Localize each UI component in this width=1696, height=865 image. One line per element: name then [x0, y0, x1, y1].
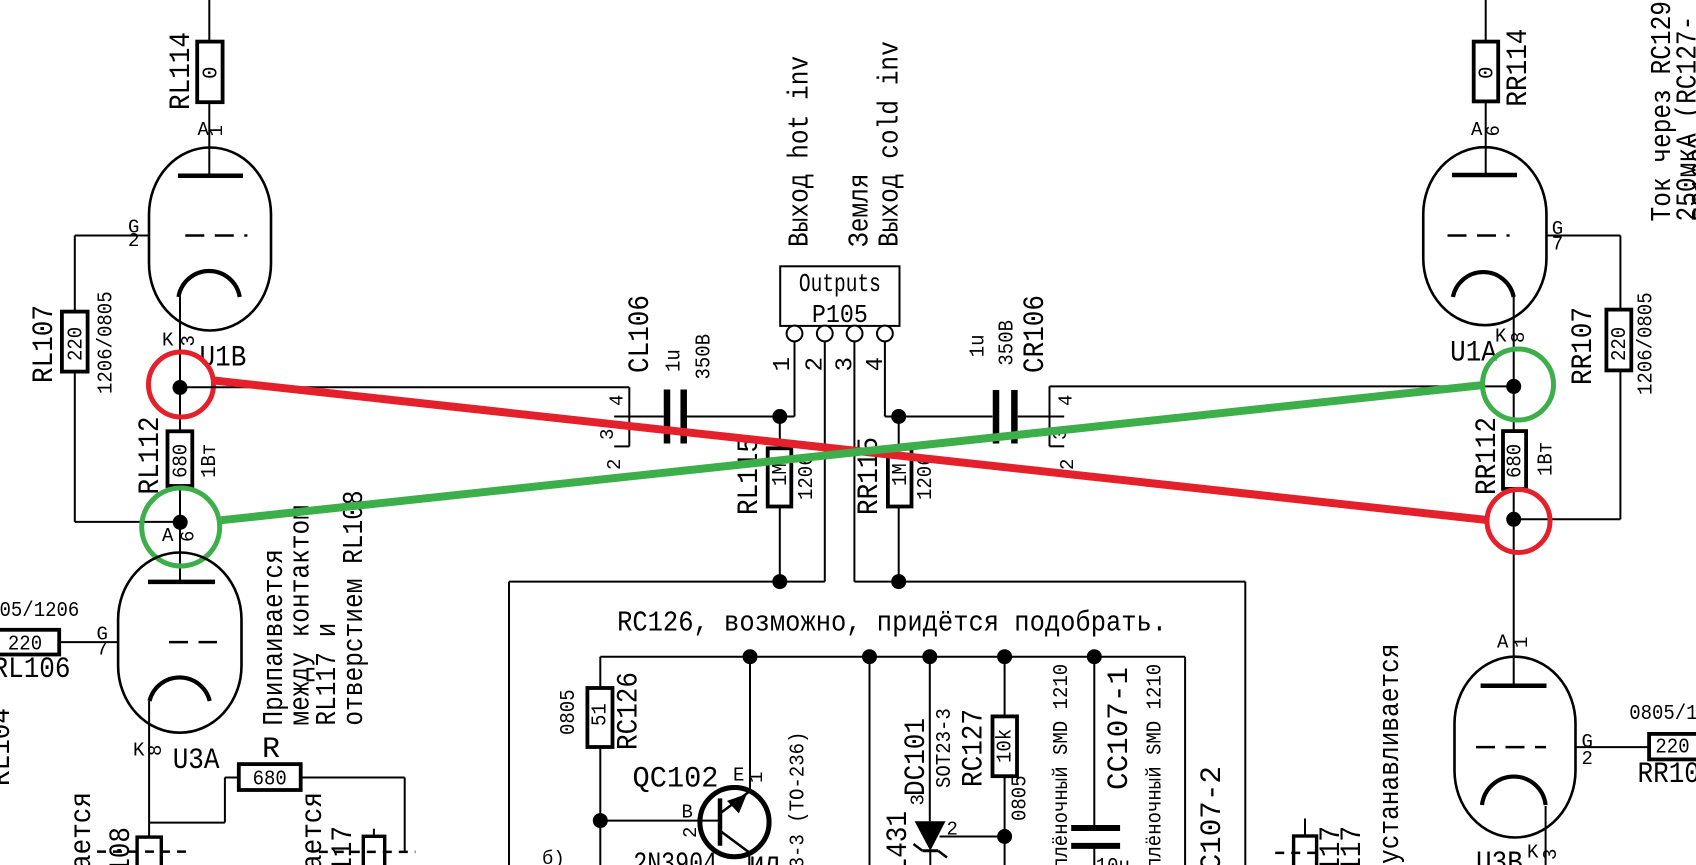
svg-text:RR117: RR117 — [1336, 826, 1370, 865]
wire K U3A to resistor R — [149, 822, 225, 824]
svg-text:RL112: RL112 — [134, 417, 168, 495]
wire CL106 to pin1 P105 — [687, 416, 795, 418]
svg-text:0805: 0805 — [558, 689, 581, 735]
wire K U1A to output network — [1050, 385, 1514, 387]
svg-text:3: 3 — [597, 429, 619, 440]
junction cathode TL431 — [922, 649, 937, 664]
wire RL114 to U1B plate — [208, 102, 210, 176]
svg-text:устанавливается: устанавливается — [1374, 644, 1407, 865]
svg-text:DC101: DC101 — [900, 718, 934, 796]
wire RC126 down — [599, 747, 601, 865]
svg-text:1M: 1M — [890, 463, 913, 486]
svg-text:350В: 350В — [694, 334, 717, 380]
junction CC107-1 — [1087, 649, 1102, 664]
wire K U1B to output network — [180, 386, 629, 388]
svg-text:2: 2 — [680, 827, 702, 838]
wire CR106 to right connector — [1018, 416, 1064, 418]
wire CC107-1 bottom — [1093, 849, 1095, 865]
svg-text:10u: 10u — [1096, 856, 1130, 865]
highlight circle green at A U3A — [142, 488, 220, 566]
wire U1B grid — [75, 235, 149, 237]
dashed wire at RL108 — [97, 850, 190, 853]
wire pin4 P105 — [884, 342, 886, 417]
wire RR112 to U3B anode — [1513, 489, 1515, 686]
svg-text:1: 1 — [206, 125, 228, 136]
dashed wire at RR117 — [1275, 852, 1323, 855]
wire K U1A to RR112 — [1513, 297, 1515, 432]
pin circles of P105 — [787, 326, 803, 342]
svg-text:ил: ил — [749, 848, 780, 865]
junction RC127 TL431 — [997, 829, 1012, 844]
resistor R — [239, 764, 301, 790]
svg-text:RC126: RC126 — [613, 672, 647, 750]
svg-text:A: A — [1497, 632, 1509, 654]
wire pin3 P105 to ground — [853, 342, 855, 582]
resistor RL114 — [197, 42, 222, 103]
wire connector left vertical — [628, 387, 630, 446]
svg-text:U3A: U3A — [173, 744, 220, 778]
wire ground right down — [1244, 582, 1246, 865]
wire cathode TL431 — [929, 657, 931, 822]
resistor RR117 partial — [1294, 836, 1317, 865]
junction pin4 RR115 — [891, 409, 906, 424]
resistor RL108 partial — [137, 837, 161, 865]
resistor RL112 — [168, 431, 193, 486]
svg-text:A: A — [162, 525, 174, 547]
highlight circle red at K U1B — [149, 352, 214, 417]
svg-text:E: E — [733, 765, 744, 787]
svg-text:350В: 350В — [997, 320, 1020, 366]
connector left bottom bracket — [614, 445, 629, 447]
resistor RL115 — [768, 448, 792, 506]
svg-text:RC127: RC127 — [958, 709, 992, 787]
wire RR107 down — [1619, 370, 1621, 519]
svg-text:плёночный SMD 1210: плёночный SMD 1210 — [1145, 664, 1168, 865]
wire RR115 bottom — [898, 507, 900, 582]
svg-text:51: 51 — [590, 703, 613, 726]
svg-text:RL106: RL106 — [0, 653, 71, 687]
junction RC127 top — [997, 649, 1012, 664]
svg-text:2: 2 — [947, 819, 958, 841]
svg-text:1u: 1u — [968, 335, 991, 358]
junction CL106 RL115 — [772, 409, 787, 424]
svg-text:0: 0 — [201, 66, 224, 79]
svg-text:2: 2 — [1582, 748, 1593, 770]
stub of RR117 — [1304, 819, 1306, 837]
junction base QC102 — [593, 813, 608, 828]
svg-text:1Вт: 1Вт — [1536, 442, 1559, 476]
svg-text:2: 2 — [604, 459, 626, 470]
connector right bottom bracket — [1050, 445, 1065, 447]
svg-text:A: A — [1471, 119, 1483, 141]
resistor RL117 partial — [363, 836, 384, 865]
wire grid down to RL107 — [74, 236, 76, 312]
wire R right terminal — [301, 777, 405, 779]
wire base QC102 — [600, 820, 720, 822]
resistor RC127 — [993, 716, 1018, 776]
svg-text:ается: ается — [66, 792, 100, 865]
wire anode feed U1B — [208, 0, 210, 42]
triode U3A — [118, 553, 241, 733]
svg-text:K: K — [1527, 841, 1539, 863]
svg-text:ается: ается — [297, 792, 331, 865]
svg-text:7: 7 — [1552, 234, 1563, 256]
svg-text:Выход hot inv: Выход hot inv — [784, 56, 817, 247]
capacitor CC107-1 — [1071, 825, 1120, 831]
svg-text:U1B: U1B — [200, 342, 247, 376]
svg-text:RR114: RR114 — [1502, 29, 1536, 107]
svg-text:220: 220 — [66, 327, 89, 361]
svg-text:1Вт: 1Вт — [199, 444, 222, 478]
svg-text:б): б) — [542, 848, 565, 865]
svg-text:1206/0805: 1206/0805 — [96, 291, 119, 394]
svg-text:1: 1 — [770, 357, 797, 371]
svg-text:8: 8 — [1508, 332, 1530, 343]
wire ref TL431 — [869, 657, 871, 865]
svg-text:K: K — [1495, 326, 1507, 348]
svg-text:0805/1206: 0805/1206 — [1629, 703, 1696, 726]
svg-text:CR106: CR106 — [1019, 295, 1053, 373]
svg-text:RR107: RR107 — [1567, 307, 1601, 385]
svg-text:3: 3 — [1540, 849, 1562, 860]
svg-text:RL115: RL115 — [733, 437, 767, 515]
highlight circle red at A U3B — [1487, 490, 1550, 553]
wire CC107-1 top — [1093, 657, 1095, 825]
stub of RL117 — [373, 829, 375, 837]
svg-text:0805: 0805 — [1010, 775, 1033, 821]
svg-text:RL107: RL107 — [28, 305, 62, 383]
wire pin4 to CR106 — [885, 416, 993, 418]
svg-text:10k: 10k — [995, 729, 1018, 763]
svg-text:1: 1 — [1511, 637, 1533, 648]
svg-text:3: 3 — [833, 357, 860, 371]
junction RR115 ground — [891, 574, 906, 589]
wire ground left segment — [509, 581, 825, 583]
svg-text:SOT23-3: SOT23-3 — [934, 708, 957, 788]
svg-text:1: 1 — [746, 772, 768, 783]
resistor RL107 — [62, 312, 88, 372]
svg-text:6: 6 — [178, 531, 200, 542]
svg-text:220: 220 — [1655, 737, 1689, 760]
wire RC127 bottom — [1004, 776, 1006, 865]
svg-text:TL431: TL431 — [882, 811, 916, 865]
wire bias network right down — [1184, 657, 1186, 865]
svg-text:2: 2 — [1057, 459, 1079, 470]
triode U1B — [149, 148, 271, 331]
svg-text:2N3904: 2N3904 — [633, 848, 717, 865]
resistor RC126 — [587, 688, 612, 747]
wire U3A grid — [59, 641, 118, 643]
wire emitter QC102 — [749, 657, 751, 791]
wire RR115 top — [898, 417, 900, 449]
svg-text:RL114: RL114 — [165, 32, 199, 110]
svg-text:RL117: RL117 — [327, 826, 361, 865]
svg-text:RR112: RR112 — [1471, 417, 1505, 495]
wire RL115 top — [779, 417, 781, 449]
wire to anode node U3A — [75, 521, 180, 523]
resistor RR114 — [1474, 42, 1499, 102]
capacitor CR106 — [993, 390, 1000, 444]
wire U1A grid — [1547, 235, 1621, 237]
highlight green crossover line — [221, 385, 1483, 520]
wire pin1 P105 — [794, 342, 796, 417]
svg-text:RL108: RL108 — [105, 827, 139, 865]
wire K U3B down — [1545, 806, 1547, 865]
resistor RL106 — [0, 630, 59, 655]
svg-text:P105: P105 — [812, 300, 868, 330]
svg-text:CC107-1: CC107-1 — [1103, 667, 1137, 790]
wire K U3A down — [148, 701, 150, 837]
highlight red crossover line — [214, 381, 1487, 521]
highlight circle green at K U1A — [1483, 349, 1554, 420]
svg-text:4: 4 — [863, 357, 890, 371]
junction K U1B — [173, 380, 188, 395]
svg-text:QC102: QC102 — [633, 763, 719, 797]
wire connector right vertical — [1049, 386, 1051, 446]
junction ref TL431 — [862, 649, 877, 664]
wire anode feed U1A — [1485, 0, 1487, 42]
svg-text:RL104: RL104 — [0, 708, 19, 786]
svg-text:0: 0 — [1477, 66, 1500, 79]
wire down to RL117 area — [404, 778, 406, 852]
svg-text:1206/0805: 1206/0805 — [1636, 292, 1659, 395]
svg-text:RC128): RC128) — [1687, 133, 1696, 221]
svg-text:U3B: U3B — [1476, 847, 1523, 865]
svg-text:B: B — [682, 802, 693, 824]
svg-text:отверстием RL108: отверстием RL108 — [338, 490, 371, 725]
triode U1A — [1423, 147, 1546, 325]
svg-text:4: 4 — [1056, 395, 1078, 406]
wire K U1B to RL112 — [179, 297, 181, 432]
svg-text:2: 2 — [128, 230, 139, 252]
wire up to resistor R — [224, 778, 226, 823]
wire RL107 to node A U3A — [74, 372, 76, 522]
junction RL115 ground — [772, 574, 787, 589]
svg-text:1M: 1M — [770, 463, 793, 486]
resistor RR107 — [1606, 310, 1631, 371]
wire ground left down — [508, 582, 510, 865]
svg-text:CL106: CL106 — [624, 295, 658, 373]
dashed wire at RL117 — [319, 851, 416, 854]
junction A U3A — [173, 515, 188, 530]
svg-text:плёночный SMD 1210: плёночный SMD 1210 — [1051, 664, 1074, 865]
svg-text:0805/1206: 0805/1206 — [0, 600, 79, 623]
shunt regulator DC101 TL431 — [915, 821, 946, 850]
svg-text:RC126, возможно, придётся подо: RC126, возможно, придётся подобрать. — [617, 607, 1167, 640]
svg-text:680: 680 — [1505, 444, 1528, 478]
transistor QC102 — [700, 788, 769, 857]
junction K U1A — [1506, 379, 1521, 394]
svg-text:RR106: RR106 — [1638, 758, 1696, 792]
svg-text:680: 680 — [253, 769, 287, 792]
wire anode TL431 down — [929, 851, 931, 865]
wire pin 4 to CL106 — [614, 416, 664, 418]
svg-text:CC107-2: CC107-2 — [1196, 766, 1230, 865]
svg-text:4: 4 — [606, 395, 628, 406]
wire collector QC102 — [748, 851, 750, 865]
svg-text:R: R — [262, 733, 280, 767]
wire bias network top — [600, 656, 1185, 658]
wire TL431 pin2 to RC127 — [940, 836, 1005, 838]
wire RL112 to U3A anode — [179, 486, 181, 582]
junction A U3B — [1506, 512, 1521, 527]
wire RC127 top — [1004, 657, 1006, 717]
capacitor CL106 — [664, 390, 671, 444]
svg-text:680: 680 — [171, 444, 194, 478]
wire RL115 bottom — [779, 507, 781, 582]
connector P105 box — [780, 266, 899, 326]
wire to R left terminal — [225, 777, 239, 779]
svg-text:K: K — [133, 740, 145, 762]
resistor RR112 — [1503, 431, 1526, 489]
svg-text:Земля: Земля — [844, 174, 877, 248]
wire RR107 to node K U3B — [1514, 518, 1621, 520]
svg-text:3: 3 — [178, 335, 200, 346]
wire RR114 to U1A plate — [1485, 101, 1487, 175]
svg-text:Outputs: Outputs — [799, 269, 881, 299]
svg-text:1u: 1u — [664, 349, 687, 372]
wire ground right segment — [854, 581, 1245, 583]
triode U3B — [1455, 657, 1576, 838]
junction emitter QC102 — [743, 649, 758, 664]
wire U3B grid — [1576, 746, 1650, 748]
svg-text:220: 220 — [1609, 327, 1632, 361]
wire to RC126 — [599, 657, 601, 688]
svg-text:Выход cold inv: Выход cold inv — [874, 41, 907, 247]
svg-text:SOT23-3 (TO-236): SOT23-3 (TO-236) — [788, 732, 811, 865]
wire pin2 P105 to ground — [824, 342, 826, 582]
resistor RR115 — [888, 448, 912, 506]
svg-text:K: K — [162, 330, 174, 352]
wire grid down to RR107 — [1619, 236, 1621, 310]
resistor RR106 — [1649, 734, 1696, 760]
svg-text:6: 6 — [1483, 125, 1505, 136]
